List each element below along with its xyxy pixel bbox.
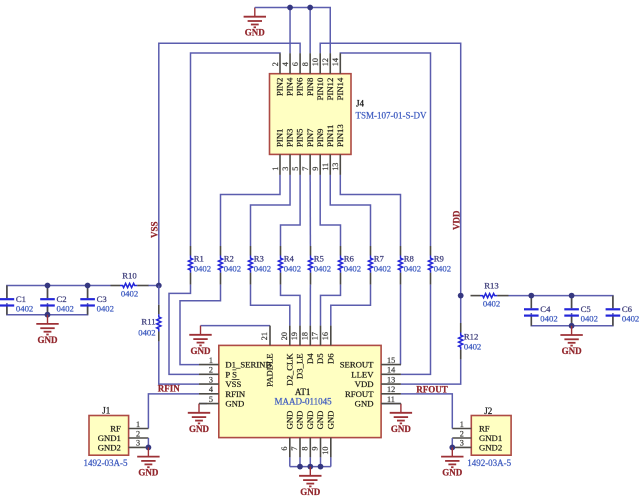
svg-text:11: 11 [321,163,330,171]
J4 pin names top [275,77,345,100]
svg-text:GND: GND [284,411,294,430]
svg-text:2: 2 [460,429,464,438]
junction [318,464,324,470]
J2 pin names [479,424,502,453]
wire AT1 pin21 to ground [201,325,271,327]
svg-text:TSM-107-01-S-DV: TSM-107-01-S-DV [356,111,427,121]
svg-text:15: 15 [387,356,395,365]
svg-text:GND: GND [315,411,325,430]
wire R5 to AT1 pin18 [309,285,311,326]
svg-text:GND2: GND2 [479,442,502,452]
svg-text:R3: R3 [254,254,264,264]
svg-text:GND: GND [225,399,244,409]
wire GND rail to J4 pins 4 8 12 [255,8,330,54]
wire right cap rail top [509,296,613,308]
wire [381,403,401,405]
wire J4 pin9 to R6 [320,175,340,246]
junction [297,464,303,470]
junction [85,283,91,289]
AT1 pin names left [225,360,271,409]
svg-text:4: 4 [209,385,213,394]
svg-text:17: 17 [311,332,320,340]
svg-text:0402: 0402 [344,264,361,274]
svg-text:3: 3 [460,439,464,448]
resistor R5 [308,246,331,285]
svg-text:0402: 0402 [374,264,391,274]
AT1 pin numbers bottom [280,447,330,455]
junction [45,312,51,318]
svg-text:13: 13 [331,163,340,171]
svg-text:C3: C3 [97,294,107,304]
resistor R1 [188,246,211,285]
svg-text:GND: GND [189,424,210,434]
svg-text:VSS: VSS [225,379,241,389]
J4 pin names bottom [275,124,345,147]
ground [189,326,211,356]
svg-text:13: 13 [387,375,395,384]
svg-text:R4: R4 [284,254,295,264]
svg-text:SEROUT: SEROUT [340,360,374,370]
svg-text:1492-03A-5: 1492-03A-5 [467,458,511,468]
svg-text:0402: 0402 [16,304,33,314]
wire AT1 ground bus [290,457,331,466]
svg-text:C5: C5 [581,304,591,314]
svg-text:D6: D6 [325,353,335,364]
wire J2 pin2 pin3 ground [451,438,453,447]
svg-text:PIN7: PIN7 [305,128,315,147]
connector J2 [452,416,511,456]
capacitor C5 [564,296,598,326]
resistor R2 [218,246,241,285]
svg-text:RFOUT: RFOUT [416,385,448,395]
wire [571,313,573,326]
svg-text:J4: J4 [356,99,365,109]
junction [307,5,313,11]
svg-text:GND: GND [138,468,159,478]
wire J4 pin7 to R5 [309,175,311,246]
svg-text:RFOUT: RFOUT [345,389,374,399]
wire [47,286,49,299]
svg-text:0402: 0402 [121,288,138,298]
wire J4 pin14 to R9 [340,53,430,246]
svg-text:GND: GND [305,411,315,430]
svg-text:R12: R12 [464,332,478,342]
svg-text:6: 6 [291,62,300,66]
svg-text:D5: D5 [315,353,325,364]
svg-text:0402: 0402 [622,314,639,324]
svg-text:0402: 0402 [284,264,301,274]
svg-text:PIN14: PIN14 [335,77,345,100]
junction [569,323,575,329]
wire J1 pin2 pin3 ground [147,438,149,447]
svg-text:PIN10: PIN10 [315,77,325,100]
resistor R11 [138,286,161,342]
J1 pin names [98,424,121,453]
wire RFIN net [148,394,199,429]
op-amp U1 attenuator AT1 MAAD-011045 [199,326,401,458]
svg-text:0402: 0402 [464,342,481,352]
svg-text:0402: 0402 [138,328,155,338]
svg-text:P S: P S [225,369,237,379]
svg-text:R6: R6 [344,254,355,264]
connector J1 [89,416,148,456]
svg-text:GND2: GND2 [98,442,121,452]
capacitor C4 [524,296,558,326]
ground [560,326,582,356]
svg-text:3: 3 [281,167,290,171]
svg-text:18: 18 [301,332,310,340]
svg-text:3: 3 [136,439,140,448]
svg-text:1: 1 [460,420,464,429]
svg-text:0402: 0402 [57,304,74,314]
svg-text:1: 1 [136,420,140,429]
svg-text:2: 2 [209,366,213,375]
junction [287,5,293,11]
svg-text:0402: 0402 [314,264,331,274]
svg-text:5: 5 [209,395,213,404]
svg-text:6: 6 [280,447,289,451]
svg-text:PIN13: PIN13 [335,124,345,147]
svg-text:9: 9 [311,167,320,171]
resistor R4 [278,246,301,285]
svg-text:GND: GND [562,346,583,356]
wire J4 pin5 to R4 [281,175,301,246]
svg-text:0402: 0402 [97,304,114,314]
wire [289,8,291,54]
wire R1 to AT1 pin2 [169,285,199,375]
J2 pin numbers [460,420,464,448]
ground [36,315,58,345]
svg-text:GND: GND [38,335,59,345]
resistor R8 [398,246,421,285]
svg-text:R10: R10 [122,270,137,280]
svg-text:0402: 0402 [404,264,421,274]
svg-text:PIN3: PIN3 [285,129,295,147]
svg-text:4: 4 [281,62,290,66]
svg-text:PADDLE: PADDLE [265,353,275,386]
svg-text:20: 20 [280,332,289,340]
ground [299,467,321,497]
J4 pin numbers bottom [271,163,340,171]
capacitor C2 [40,286,74,315]
ground [244,8,266,38]
ground [188,404,210,434]
svg-text:R7: R7 [374,254,385,264]
resistor R13 [471,280,509,308]
resistor R12 [459,296,482,360]
svg-text:PIN5: PIN5 [295,129,305,147]
svg-text:1: 1 [271,167,280,171]
svg-text:2: 2 [271,62,280,66]
svg-text:8: 8 [301,62,310,66]
wire R4 to AT1 pin19 [281,285,301,326]
svg-text:0402: 0402 [434,264,451,274]
svg-text:GND: GND [442,468,463,478]
svg-text:RFIN: RFIN [225,389,246,399]
wire J4 pin11 to R7 [330,175,370,246]
resistor R6 [338,246,361,285]
svg-text:R8: R8 [404,254,415,264]
junction [449,445,455,451]
wire R7 to AT1 pin16 [331,285,371,326]
J1 pin numbers [136,420,140,448]
svg-text:9: 9 [311,447,320,451]
svg-text:R1: R1 [194,254,204,264]
svg-text:0402: 0402 [581,314,598,324]
svg-text:PIN8: PIN8 [305,77,315,96]
junction [528,293,534,299]
svg-text:GND: GND [355,399,374,409]
AT1 pin numbers top [260,332,330,340]
svg-text:7: 7 [290,447,299,451]
wire R11 to AT1 pin3 [159,341,199,384]
wire [199,403,207,405]
capacitor C1 [0,286,33,315]
wire R12 to AT1 pin13 [401,359,461,384]
svg-text:J2: J2 [484,406,492,416]
svg-text:0402: 0402 [254,264,271,274]
svg-text:1492-03A-5: 1492-03A-5 [84,458,128,468]
wire R9 to AT1 pin14 [401,285,431,375]
svg-text:14: 14 [387,366,395,375]
svg-text:14: 14 [331,58,340,66]
AT1 pin names bottom [284,411,335,430]
svg-text:0402: 0402 [224,264,241,274]
svg-text:C2: C2 [57,294,67,304]
svg-text:RFIN: RFIN [158,384,180,394]
svg-text:GND: GND [295,411,305,430]
AT1 pin names top [265,353,336,387]
J4 pin numbers top [271,58,340,66]
wire left cap rail bottom [7,303,88,315]
wire J4 pin3 to R3 [251,175,291,246]
svg-text:0402: 0402 [540,314,557,324]
capacitor C3 [80,286,114,315]
wire J4 pin2 to R1 [191,53,281,246]
svg-text:R13: R13 [484,280,498,290]
node VDD / R13 / R12 [458,293,464,299]
svg-text:10: 10 [321,447,330,455]
svg-text:PIN12: PIN12 [325,78,335,101]
svg-text:C4: C4 [540,304,551,314]
svg-text:2: 2 [136,429,140,438]
svg-text:16: 16 [321,332,330,340]
AT1 pin numbers right [387,356,395,404]
svg-text:R5: R5 [314,254,324,264]
wire R8 to AT1 pin15 [400,285,402,365]
junction [307,464,313,470]
svg-text:R2: R2 [224,254,234,264]
svg-text:3: 3 [209,375,213,384]
svg-text:GND: GND [325,411,335,430]
wire RFOUT net [401,394,452,429]
svg-text:VDD: VDD [452,210,462,230]
svg-text:10: 10 [311,58,320,66]
svg-text:D2_CLK: D2_CLK [284,353,294,386]
svg-text:12: 12 [321,58,330,66]
wire R2 to AT1 pin1 [180,285,221,365]
ground [137,447,159,477]
resistor R10 [111,270,149,298]
wire left cap rail top [7,286,111,299]
wire VDD net [320,43,461,295]
svg-text:RF: RF [110,424,121,434]
svg-text:LLEV: LLEV [351,369,374,379]
svg-text:GND: GND [245,28,266,38]
svg-text:8: 8 [301,447,310,451]
wire [571,296,573,308]
AT1 pin names right [340,360,375,409]
svg-text:D3_LE: D3_LE [295,353,305,379]
svg-text:12: 12 [387,385,395,394]
svg-text:MAAD-011045: MAAD-011045 [275,396,333,406]
connector J4 [270,53,352,175]
junction [45,283,51,289]
wire [47,303,49,315]
svg-text:GND: GND [300,487,321,497]
svg-text:RF: RF [479,424,490,434]
junction [146,445,152,451]
ground [390,404,412,434]
resistor R3 [248,246,271,285]
svg-text:PIN6: PIN6 [295,77,305,96]
wire [87,286,89,299]
capacitor C6 [606,296,640,326]
svg-text:VSS: VSS [149,221,159,238]
svg-text:C1: C1 [16,294,26,304]
wire VSS net [159,43,300,285]
AT1 pin numbers left [209,356,213,404]
svg-text:GND: GND [391,424,412,434]
wire R6 to AT1 pin17 [321,285,341,326]
node VSS / R10 / R11 [156,283,162,289]
wire [530,296,532,308]
svg-text:0402: 0402 [483,298,500,308]
svg-text:1: 1 [209,356,213,365]
wire right cap rail bottom [531,313,613,326]
svg-text:PIN9: PIN9 [315,129,325,147]
svg-text:C6: C6 [622,304,633,314]
wire J4 pin1 to R2 [221,175,281,246]
svg-text:PIN4: PIN4 [285,77,295,96]
svg-text:R11: R11 [141,317,155,327]
svg-text:21: 21 [260,332,269,340]
svg-text:PIN1: PIN1 [275,129,285,147]
wire [309,8,311,54]
ground [441,447,463,477]
svg-text:D4: D4 [305,353,315,364]
svg-text:R9: R9 [434,254,444,264]
svg-text:5: 5 [291,167,300,171]
svg-text:J1: J1 [102,405,110,415]
wire [148,285,159,287]
junction [569,293,575,299]
svg-text:0402: 0402 [194,264,211,274]
svg-text:7: 7 [301,167,310,171]
wire R3 to AT1 pin20 [251,285,290,326]
svg-text:11: 11 [387,395,395,404]
resistor R7 [368,246,391,285]
wire J4 pin13 to R8 [340,175,400,246]
resistor R9 [428,246,451,285]
svg-text:19: 19 [290,332,299,340]
svg-text:PIN2: PIN2 [275,78,285,96]
svg-text:PIN11: PIN11 [325,125,335,147]
svg-text:GND: GND [191,346,212,356]
svg-text:VDD: VDD [355,379,374,389]
